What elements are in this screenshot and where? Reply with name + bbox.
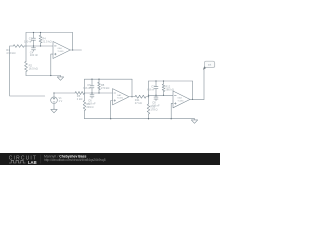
wire middle stage 3 [149, 94, 174, 96]
svg-text:280 kΩ: 280 kΩ [165, 88, 173, 92]
svg-text:21.5 kΩ: 21.5 kΩ [42, 39, 51, 43]
wire middle stage 2 [85, 92, 113, 94]
wire noninverting input OA2 [111, 101, 113, 119]
resistor R4 [39, 35, 42, 43]
capacitor C8 [155, 95, 157, 97]
svg-text:6.8 nF: 6.8 nF [147, 88, 155, 92]
resistor R12 [162, 84, 165, 92]
svg-text:LAB: LAB [28, 160, 37, 165]
wire output OA2 [129, 96, 135, 98]
wire noninverting input to bottom [51, 54, 53, 75]
wire middle stage 1 [26, 45, 53, 47]
svg-text:100 nF: 100 nF [30, 53, 39, 57]
node flag out [203, 66, 207, 70]
svg-text:6.8 nF: 6.8 nF [83, 86, 91, 90]
resistor R11 [135, 95, 146, 98]
capacitor C7 [155, 81, 157, 87]
capacitor C5 [91, 79, 93, 86]
wire top rail stage 2 [85, 78, 133, 80]
svg-text:178 Ω: 178 Ω [150, 108, 157, 112]
wire output OA3 [190, 98, 204, 100]
svg-text:100 nF: 100 nF [24, 39, 33, 43]
wire V1 bottom [53, 104, 55, 109]
svg-text:TL081: TL081 [57, 51, 64, 53]
resistor R10 [147, 104, 150, 114]
op-amp OA3 [173, 91, 190, 108]
resistor R6 [83, 101, 86, 111]
wire R11 to stage 3 column [148, 96, 149, 97]
wire node C column [148, 81, 150, 104]
voltage source V1 [51, 97, 58, 104]
wire feedback stage 1 [72, 33, 74, 51]
footer bar [0, 153, 220, 165]
svg-text:OA3: OA3 [177, 97, 182, 100]
svg-text:16.5 kΩ: 16.5 kΩ [29, 66, 38, 70]
capacitor C6 [91, 93, 93, 95]
op-amp OA2 [113, 89, 130, 105]
svg-text:4.99 kΩ: 4.99 kΩ [6, 51, 15, 55]
svg-text:http://circuitlab.com/circuit/: http://circuitlab.com/circuit/4fw84qs26k… [44, 158, 106, 162]
wire V1 top [53, 93, 55, 97]
wire noninverting input OA3 [171, 103, 173, 118]
capacitor C4 [33, 46, 35, 48]
ground stage 1 [60, 76, 62, 77]
svg-text:270 kΩ: 270 kΩ [101, 86, 109, 90]
wire node B to rail [84, 79, 86, 93]
resistor R2 [25, 62, 28, 72]
wire output OA1 [70, 49, 81, 51]
svg-text:27 kΩ: 27 kΩ [135, 101, 142, 105]
wire bottom stage 1 [26, 75, 61, 77]
resistor R8 [98, 82, 101, 90]
svg-text:OA1: OA1 [57, 47, 62, 50]
svg-text:out: out [208, 64, 212, 67]
wire input left branch [10, 46, 45, 96]
resistor R5 [75, 92, 85, 95]
svg-text:1 V: 1 V [59, 100, 63, 103]
wire to output flag [203, 69, 205, 100]
svg-text:OA2: OA2 [117, 94, 122, 97]
wire ground bus [85, 118, 195, 120]
wire V1 to R5 [54, 92, 75, 94]
svg-text:TL081: TL081 [177, 100, 184, 102]
wire top rail stage 3 [149, 80, 193, 82]
wire node A to rail [25, 33, 27, 47]
ground V1 [53, 108, 55, 111]
wire top rail stage 1 [26, 32, 73, 34]
capacitor C3 [33, 33, 35, 39]
op-amp OA1 [53, 42, 70, 59]
svg-text:TL081: TL081 [117, 98, 124, 100]
resistor R1 [13, 45, 24, 48]
svg-text:2 kΩ: 2 kΩ [77, 97, 83, 101]
wire feedback stage 2 [131, 79, 133, 97]
svg-text:249 Ω: 249 Ω [86, 105, 93, 109]
separator [40, 155, 42, 164]
ground stage 3 [194, 119, 196, 120]
wire feedback stage 3 [192, 81, 194, 99]
